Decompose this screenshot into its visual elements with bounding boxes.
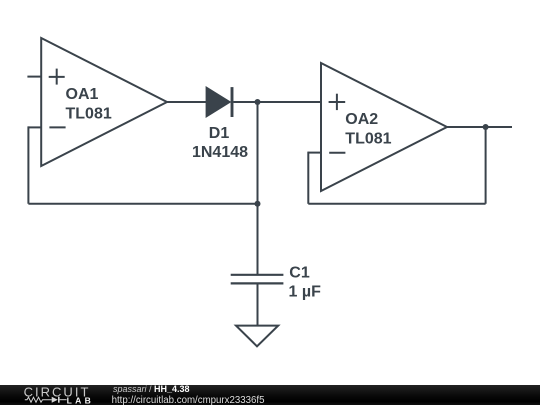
wire: node down to feedback node bbox=[257, 102, 259, 204]
wire: OA2 feedback right vertical bbox=[485, 127, 487, 204]
wire: OA1 non-inverting input stub bbox=[27, 76, 41, 78]
svg-text:1N4148: 1N4148 bbox=[192, 144, 248, 161]
wire: OA2 feedback bottom horizontal bbox=[308, 203, 485, 205]
junction: feedback / capacitor node bbox=[255, 201, 261, 207]
svg-text:C1: C1 bbox=[289, 265, 310, 282]
CircuitLab logo bbox=[0, 385, 100, 405]
op-amp OA2 bbox=[321, 63, 447, 191]
svg-text:OA2: OA2 bbox=[345, 111, 378, 128]
wire: node down to capacitor C1 bbox=[257, 204, 259, 275]
op-amp OA1 bbox=[41, 38, 167, 166]
diode D1 bbox=[207, 87, 232, 117]
footer bar bbox=[0, 385, 540, 405]
wire: OA2 inverting input stub bbox=[308, 152, 321, 154]
credit text line 1 bbox=[113, 384, 190, 394]
wire: OA1 feedback bottom horizontal bbox=[28, 203, 257, 205]
svg-text:TL081: TL081 bbox=[66, 106, 112, 123]
svg-text:D1: D1 bbox=[209, 125, 230, 142]
wire: diode cathode to node bbox=[233, 101, 257, 103]
wire: capacitor C1 to ground bbox=[257, 283, 259, 325]
svg-text:TL081: TL081 bbox=[345, 131, 391, 148]
wire: OA1 output to diode anode bbox=[167, 101, 207, 103]
wire: OA2 output bbox=[447, 126, 512, 128]
wire: OA2 feedback left vertical bbox=[307, 152, 309, 204]
credit text line 2 bbox=[112, 395, 265, 405]
ground bbox=[236, 326, 278, 347]
junction: OA2 output node bbox=[483, 124, 489, 130]
wire: OA1 inverting input stub bbox=[28, 126, 41, 128]
wire: OA1 feedback left vertical bbox=[27, 126, 29, 203]
junction: diode output node bbox=[255, 99, 261, 105]
svg-text:LAB: LAB bbox=[67, 395, 91, 405]
wire: node to OA2 non-inverting input bbox=[258, 101, 322, 103]
svg-text:1 µF: 1 µF bbox=[289, 284, 322, 301]
svg-text:OA1: OA1 bbox=[66, 86, 99, 103]
capacitor C1 bbox=[231, 275, 284, 284]
